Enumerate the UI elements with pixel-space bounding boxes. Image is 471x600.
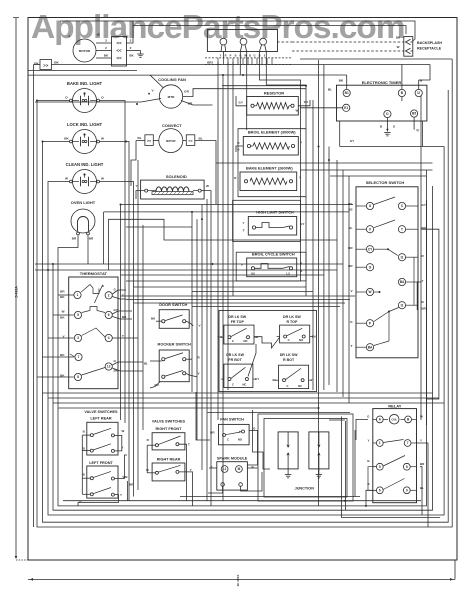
svg-text:LEFT REAR: LEFT REAR — [90, 417, 112, 421]
svg-text:BROIL ELEMENT (3000W): BROIL ELEMENT (3000W) — [248, 129, 296, 134]
connector CN2 (motor plug) — [112, 37, 127, 67]
wire door switch exits — [156, 320, 162, 322]
svg-text:OVEN LIGHT: OVEN LIGHT — [71, 200, 96, 205]
svg-text:7: 7 — [407, 441, 409, 445]
svg-text:C: C — [287, 384, 289, 388]
connector convect left — [145, 135, 153, 146]
svg-text:BK: BK — [64, 136, 69, 140]
svg-text:W: W — [101, 136, 104, 140]
wire top left horizontals — [28, 70, 137, 72]
svg-text:LEFT FRONT: LEFT FRONT — [89, 461, 113, 465]
svg-text:<<: << — [116, 48, 122, 53]
svg-text:C: C — [227, 438, 229, 442]
bottom dimension line 1 — [16, 559, 28, 561]
svg-text:RELAY: RELAY — [388, 404, 402, 409]
svg-text:BAKE IND. LIGHT: BAKE IND. LIGHT — [67, 81, 103, 86]
svg-text:MTR: MTR — [168, 95, 175, 99]
left dimension line — [15, 18, 17, 559]
svg-text:MOTOR: MOTOR — [166, 140, 175, 143]
wire corridor E verticals (x300-330) — [312, 100, 314, 390]
wire rocker exits — [150, 360, 162, 362]
wire selector right leads — [406, 205, 418, 207]
svg-text:P: P — [230, 54, 232, 58]
wire harness left nested verticals — [37, 59, 452, 527]
svg-text:THERMOSTAT: THERMOSTAT — [80, 271, 108, 276]
svg-text:R BOT: R BOT — [283, 358, 295, 362]
wire solenoid left — [136, 191, 145, 199]
wire timer B1 up — [346, 75, 348, 89]
power terminal block TB1 — [207, 30, 277, 52]
wire thermostat left leads — [58, 294, 74, 296]
svg-text:NO: NO — [238, 438, 242, 442]
wire valve right exits — [179, 444, 187, 501]
svg-text:B: B — [259, 54, 261, 58]
svg-text:Y: Y — [420, 439, 422, 443]
svg-text:W: W — [296, 109, 299, 113]
svg-text:ROCKER SWITCH: ROCKER SWITCH — [158, 342, 191, 347]
svg-text:FR TOP: FR TOP — [231, 320, 245, 324]
svg-text:7: 7 — [78, 355, 80, 359]
svg-text:T: T — [122, 294, 124, 298]
svg-text:R: R — [225, 54, 227, 58]
wire fan switch NO exit — [247, 431, 257, 466]
svg-text:BK: BK — [339, 79, 344, 83]
valve switch RIGHT FRONT — [152, 433, 185, 450]
wire corridor F verticals (x337-353) — [336, 160, 338, 392]
svg-text:G: G — [239, 54, 241, 58]
svg-text:LOCK IND. LIGHT: LOCK IND. LIGHT — [67, 122, 103, 127]
svg-text:2: 2 — [108, 293, 110, 297]
svg-text:FAN SWITCH: FAN SWITCH — [220, 418, 244, 422]
svg-text:NO: NO — [243, 339, 247, 343]
svg-text:VALVE SWITCHES: VALVE SWITCHES — [152, 419, 186, 423]
svg-text:W: W — [65, 176, 68, 180]
igniter 2 ground — [318, 469, 320, 475]
svg-text:MOTOR: MOTOR — [79, 49, 91, 53]
svg-text:8: 8 — [406, 465, 408, 469]
svg-text:C: C — [232, 383, 234, 387]
door lock switches enclosure — [219, 311, 317, 392]
svg-text:T: T — [401, 227, 403, 231]
wire elements enclosure — [238, 129, 306, 197]
power terminal L1 — [220, 38, 227, 45]
svg-text:Y: Y — [367, 439, 369, 443]
svg-text:ELECTRONIC TIMER: ELECTRONIC TIMER — [362, 80, 402, 85]
svg-text:COOLING FAN: COOLING FAN — [158, 77, 186, 82]
svg-text:C: C — [288, 338, 290, 342]
svg-text:C: C — [232, 339, 234, 343]
svg-text:W: W — [368, 290, 371, 294]
svg-text:W: W — [420, 415, 423, 419]
svg-text:6: 6 — [108, 313, 110, 317]
svg-text:<<: << — [188, 139, 192, 143]
svg-text:G: G — [253, 54, 255, 58]
igniter enclosure top line — [208, 412, 351, 414]
wire selector right U-turn — [422, 229, 439, 399]
svg-text:SPARK MODULE: SPARK MODULE — [217, 457, 248, 461]
wire timer B down — [401, 97, 403, 101]
connector CN1 backsplash — [404, 37, 413, 57]
thermostat terminal 7 stub — [70, 354, 75, 357]
wire top bus 1 — [60, 21, 415, 41]
svg-text:FR BOT: FR BOT — [228, 358, 242, 362]
svg-text:RIGHT FRONT: RIGHT FRONT — [156, 427, 183, 431]
svg-text:W: W — [397, 45, 400, 49]
wire timer I2 up — [418, 80, 420, 89]
svg-text:6: 6 — [379, 488, 381, 492]
wire right corridor verticals — [420, 96, 422, 420]
wire cooling fan left — [35, 99, 161, 103]
igniter 2 — [309, 432, 329, 469]
svg-text:V: V — [350, 289, 352, 293]
wire inter-column verticals x103-108 — [103, 212, 105, 264]
wire dashed to backsplash receptacle — [292, 41, 404, 43]
svg-text:<<: << — [116, 56, 122, 61]
svg-text:Y: Y — [220, 54, 222, 58]
wire mid feed buses (x218-233) — [217, 62, 219, 420]
svg-text:RIGHT REAR: RIGHT REAR — [157, 458, 181, 462]
svg-text:V: V — [198, 371, 200, 375]
wire relay corridors — [417, 443, 429, 527]
wire DLB inner routing — [254, 337, 280, 348]
igniter 1 — [278, 432, 298, 469]
svg-text:BA: BA — [400, 280, 405, 284]
svg-text:RECEPTACLE: RECEPTACLE — [417, 46, 442, 50]
svg-text:M: M — [238, 467, 241, 471]
wire power drops — [222, 52, 224, 58]
wire left vertical x53 from band2 — [53, 186, 433, 510]
wire convect leads — [153, 140, 159, 142]
svg-text:CONVECT: CONVECT — [162, 123, 182, 128]
svg-text:8: 8 — [77, 375, 79, 379]
svg-text:B: B — [249, 54, 251, 58]
svg-text:1: 1 — [379, 441, 381, 445]
svg-text:RESISTOR: RESISTOR — [264, 90, 284, 95]
svg-text:I2: I2 — [401, 303, 404, 307]
svg-text:JUNCTION: JUNCTION — [295, 487, 315, 491]
wire spark module leads — [209, 467, 217, 469]
electronic timer U1 — [337, 85, 427, 121]
svg-text:BAKE ELEMENT (2600W): BAKE ELEMENT (2600W) — [246, 165, 293, 170]
igniter 1 ground — [287, 469, 289, 475]
svg-text:BR: BR — [89, 237, 94, 241]
thermostat contacts — [81, 285, 99, 294]
bottom dimension line 2 — [28, 578, 455, 580]
svg-text:S 410A: S 410A — [15, 286, 19, 298]
ground G1 — [127, 50, 141, 52]
selector switch contacts — [374, 197, 395, 205]
wire timer D to ground — [386, 118, 388, 130]
wire timer B5 down — [413, 117, 415, 130]
svg-text:3: 3 — [77, 336, 79, 340]
wire igniter junction enclosure — [264, 419, 347, 498]
svg-text:Y: Y — [120, 493, 122, 497]
wire DLB top horizontals — [121, 295, 356, 297]
wire resistor right GY — [298, 100, 310, 106]
svg-text:T: T — [188, 443, 190, 447]
svg-text:SOLENOID: SOLENOID — [166, 174, 187, 179]
connector convect right — [186, 135, 195, 146]
junction dots — [222, 74, 224, 76]
motor M1 top-left — [73, 39, 96, 62]
wire cooling fan right — [183, 89, 306, 97]
svg-text:VALVE SWITCHES: VALVE SWITCHES — [84, 410, 118, 414]
wire cooling fan upper — [150, 75, 164, 88]
wire broil cycle enclosure — [236, 252, 306, 281]
svg-text:12: 12 — [107, 365, 111, 369]
svg-text:COIL: COIL — [391, 418, 397, 421]
svg-text:Y: Y — [422, 279, 424, 283]
wire corridor C verticals (x192-213) — [191, 212, 193, 392]
svg-text:BR: BR — [72, 237, 77, 241]
terminal strip dashed — [205, 57, 292, 59]
svg-text:T: T — [351, 344, 353, 348]
svg-text:5: 5 — [379, 465, 381, 469]
svg-text:BL: BL — [328, 88, 332, 92]
svg-text:5: 5 — [77, 313, 79, 317]
svg-text:DR LK SW: DR LK SW — [283, 315, 301, 319]
svg-text:R TOP: R TOP — [286, 320, 298, 324]
wire high limit enclosure — [233, 200, 301, 241]
power terminal N — [240, 38, 247, 45]
dimension extension right — [454, 560, 456, 579]
wire corridor B verticals (x120-143) — [100, 101, 126, 424]
wire horizontals band 3 (y390-410) — [43, 392, 433, 394]
svg-text:W: W — [206, 184, 209, 188]
wire resistor left — [236, 96, 247, 106]
svg-text:4: 4 — [108, 336, 110, 340]
svg-text:BL: BL — [138, 136, 142, 140]
svg-text:V: V — [199, 323, 201, 327]
svg-text:T: T — [122, 334, 124, 338]
wire thermostat right leads — [112, 290, 126, 294]
svg-text:BR2: BR2 — [207, 61, 213, 65]
svg-text:E1: E1 — [344, 106, 348, 110]
svg-text:1: 1 — [77, 293, 79, 297]
svg-text:NC: NC — [242, 383, 246, 387]
svg-text:>>: >> — [147, 139, 151, 143]
svg-text:9: 9 — [406, 488, 408, 492]
connector J2 quick-disconnect — [40, 60, 52, 70]
wire broil element left — [236, 146, 243, 152]
wire motor M1 to connector — [96, 42, 112, 44]
wire top bus 2 — [133, 26, 406, 35]
svg-text:W: W — [420, 79, 423, 83]
svg-text:DR LK SW: DR LK SW — [280, 353, 298, 357]
svg-text:B: B — [235, 54, 237, 58]
power terminal L2 — [260, 38, 267, 45]
svg-text:2C 400A: 2C 400A — [236, 574, 240, 587]
svg-text:BK: BK — [54, 61, 59, 65]
wire harness top right corridor — [300, 58, 452, 60]
svg-text:I2: I2 — [417, 91, 420, 95]
wire middle column enclosure top — [222, 85, 306, 87]
svg-text:B5: B5 — [412, 112, 416, 116]
wire solenoid right — [201, 191, 211, 199]
svg-text:Y: Y — [190, 468, 192, 472]
selector inner right vertical — [413, 257, 415, 305]
svg-text:SELECTOR SWITCH: SELECTOR SWITCH — [366, 180, 405, 185]
wire mid horizontals band 1 — [121, 204, 354, 206]
svg-text:W: W — [122, 429, 125, 433]
svg-text:NC: NC — [298, 384, 302, 388]
wire spark module bottom exits — [208, 486, 223, 493]
svg-text:GY: GY — [422, 203, 426, 207]
svg-text:DR LK SW: DR LK SW — [226, 353, 244, 357]
wire valve right stitch — [146, 445, 148, 473]
wire feed to timer B1 — [218, 74, 347, 76]
svg-text:W: W — [101, 176, 104, 180]
wire selector left leads — [356, 205, 366, 207]
svg-text:NO: NO — [299, 338, 303, 342]
svg-text:>>: >> — [43, 63, 49, 68]
wire relay leads — [373, 418, 377, 420]
svg-text:BA: BA — [368, 345, 373, 349]
wire timer E1 left — [300, 107, 343, 109]
svg-text:I2: I2 — [401, 255, 404, 259]
wire valve left stitch verticals — [81, 435, 83, 494]
wire motor M1 upper to top bus — [127, 21, 134, 43]
svg-text:W: W — [62, 310, 65, 314]
relay left bracket wire — [368, 467, 376, 491]
wire from J2 to right — [52, 64, 224, 66]
svg-text:DR LK SW: DR LK SW — [228, 315, 246, 319]
wire timer B up — [401, 65, 403, 90]
svg-text:BL: BL — [144, 361, 148, 365]
svg-text:BL: BL — [199, 136, 203, 140]
svg-text:T: T — [243, 229, 245, 233]
svg-text:AppliancePartsPros.com: AppliancePartsPros.com — [31, 9, 404, 46]
svg-text:CLEAN IND. LIGHT: CLEAN IND. LIGHT — [66, 162, 104, 167]
wire valve left right exits — [114, 435, 121, 451]
wire mid horizontals band 2 — [35, 263, 343, 265]
wire bottom harness — [63, 500, 421, 502]
svg-text:GR: GR — [184, 90, 189, 94]
svg-text:B1: B1 — [345, 91, 349, 95]
svg-text:BACKSPLASH: BACKSPLASH — [417, 41, 442, 45]
valve switch LEFT REAR — [87, 422, 118, 455]
svg-text:<<: << — [116, 41, 122, 46]
